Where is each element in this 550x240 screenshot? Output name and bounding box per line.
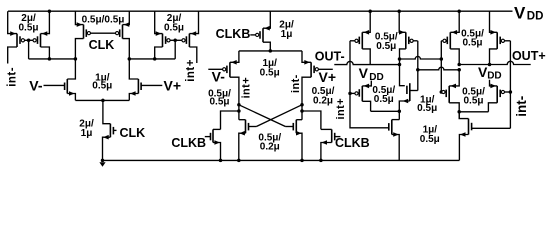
svg-text:int+: int+ bbox=[335, 98, 347, 119]
node rail dot B bbox=[397, 9, 401, 13]
svg-text:0.5μ: 0.5μ bbox=[417, 103, 437, 114]
wire cross-couple right bbox=[239, 105, 286, 127]
transistor M6 bbox=[188, 34, 190, 47]
node M15 gnd dot bbox=[219, 159, 223, 163]
wire F gate riser bbox=[509, 41, 511, 129]
svg-text:V: V bbox=[359, 65, 369, 81]
node gate-tap dot right bbox=[173, 39, 177, 43]
transistor M15 bbox=[212, 129, 214, 142]
svg-text:int-: int- bbox=[290, 74, 302, 93]
svg-text:CLKB: CLKB bbox=[335, 136, 370, 150]
svg-text:0.5μ: 0.5μ bbox=[18, 23, 38, 34]
svg-text:CLK: CLK bbox=[119, 126, 145, 140]
svg-text:V-: V- bbox=[212, 69, 226, 85]
svg-text:OUT-: OUT- bbox=[315, 49, 345, 63]
svg-text:V: V bbox=[514, 3, 526, 22]
transistor M7 bbox=[66, 79, 68, 94]
wire OUT- node bbox=[334, 61, 399, 64]
wire M5-M6 gate tie bbox=[170, 39, 182, 41]
svg-text:1μ: 1μ bbox=[281, 29, 293, 40]
svg-text:CLK: CLK bbox=[89, 38, 115, 52]
wire M25 drain link bbox=[459, 111, 488, 113]
transistor M25 bbox=[496, 86, 498, 103]
transistor M9 bbox=[109, 124, 111, 138]
transistor M24 bbox=[448, 86, 450, 103]
wire M18 gate riser bbox=[417, 41, 419, 91]
transistor M19 bbox=[361, 86, 363, 101]
transistor M11 bbox=[229, 62, 231, 77]
svg-text:OUT+: OUT+ bbox=[512, 49, 546, 63]
transistor M5 bbox=[162, 34, 164, 47]
node M16 gnd dot bbox=[319, 159, 323, 163]
wire B-gate to E-drain bbox=[418, 67, 459, 70]
ground bbox=[101, 159, 105, 163]
transistor M23 bbox=[496, 32, 498, 49]
svg-text:DD: DD bbox=[527, 11, 544, 23]
svg-text:V+: V+ bbox=[164, 78, 182, 94]
node int+ latch bbox=[237, 103, 241, 107]
svg-text:int+: int+ bbox=[240, 77, 252, 98]
svg-text:0.5μ: 0.5μ bbox=[462, 38, 482, 49]
transistor M1 bbox=[16, 34, 18, 47]
svg-text:0.2μ: 0.2μ bbox=[313, 95, 333, 106]
transistor M14 bbox=[295, 120, 297, 134]
transistor M3 bbox=[83, 25, 85, 39]
wire tail node bbox=[75, 99, 129, 101]
transistor M21 bbox=[391, 120, 393, 135]
node latch gnd dots bbox=[237, 159, 241, 163]
transistor M18 bbox=[405, 32, 407, 49]
wire stage2 common node bbox=[239, 50, 302, 52]
wire cross-couple left bbox=[256, 105, 302, 127]
svg-text:V+: V+ bbox=[319, 69, 337, 85]
wire latch-right to M16 bbox=[302, 111, 321, 129]
svg-text:0.5μ: 0.5μ bbox=[374, 94, 394, 105]
wire CLK gate tie bbox=[91, 32, 116, 34]
svg-text:1μ: 1μ bbox=[81, 128, 93, 139]
transistor M4 bbox=[122, 25, 124, 39]
transistor M26 bbox=[468, 119, 470, 135]
wire B-drain to E-gate bbox=[400, 56, 442, 59]
svg-text:V-: V- bbox=[29, 77, 43, 93]
svg-text:0.2μ: 0.2μ bbox=[260, 141, 280, 152]
wire OUT+ node bbox=[459, 64, 489, 66]
svg-text:int+: int+ bbox=[185, 59, 197, 82]
transistor M17 bbox=[361, 32, 363, 49]
svg-text:0.5μ: 0.5μ bbox=[209, 97, 229, 108]
svg-text:int-: int- bbox=[7, 67, 19, 87]
transistor M2 bbox=[40, 34, 42, 47]
svg-text:CLKB: CLKB bbox=[216, 27, 251, 41]
transistor M8 bbox=[137, 79, 139, 94]
wire VDD rail bbox=[8, 10, 513, 12]
node gate-tap dot bbox=[27, 39, 31, 43]
wire latch-left to M15 bbox=[221, 111, 239, 129]
svg-text:CLKB: CLKB bbox=[171, 136, 206, 150]
wire M19 drain link bbox=[371, 110, 400, 112]
wire node A-right bbox=[129, 58, 175, 60]
transistor M20 bbox=[409, 83, 411, 101]
node rail dot E bbox=[457, 9, 461, 13]
svg-text:0.5μ: 0.5μ bbox=[463, 96, 483, 107]
transistor M22 bbox=[449, 32, 451, 49]
svg-text:0.5μ: 0.5μ bbox=[164, 23, 184, 34]
wire node A-left bbox=[29, 58, 76, 60]
node rail dot A bbox=[368, 9, 372, 13]
svg-text:0.5μ/0.5μ: 0.5μ/0.5μ bbox=[82, 14, 125, 25]
svg-text:0.5μ: 0.5μ bbox=[92, 80, 112, 91]
svg-text:0.5μ: 0.5μ bbox=[376, 41, 396, 52]
svg-text:int-: int- bbox=[514, 96, 529, 117]
wire ground rail bbox=[103, 159, 460, 161]
transistor M13 bbox=[245, 120, 247, 134]
transistor M10 bbox=[262, 28, 264, 42]
svg-text:0.5μ: 0.5μ bbox=[420, 134, 440, 145]
node int- latch bbox=[300, 103, 304, 107]
wire M17 gate riser bbox=[349, 41, 351, 94]
svg-text:0.5μ: 0.5μ bbox=[260, 68, 280, 79]
transistor M16 bbox=[331, 129, 333, 142]
wire M1-M2 gate tie bbox=[25, 39, 34, 41]
wire E gate riser bbox=[440, 41, 442, 92]
transistor M12 bbox=[310, 62, 312, 77]
